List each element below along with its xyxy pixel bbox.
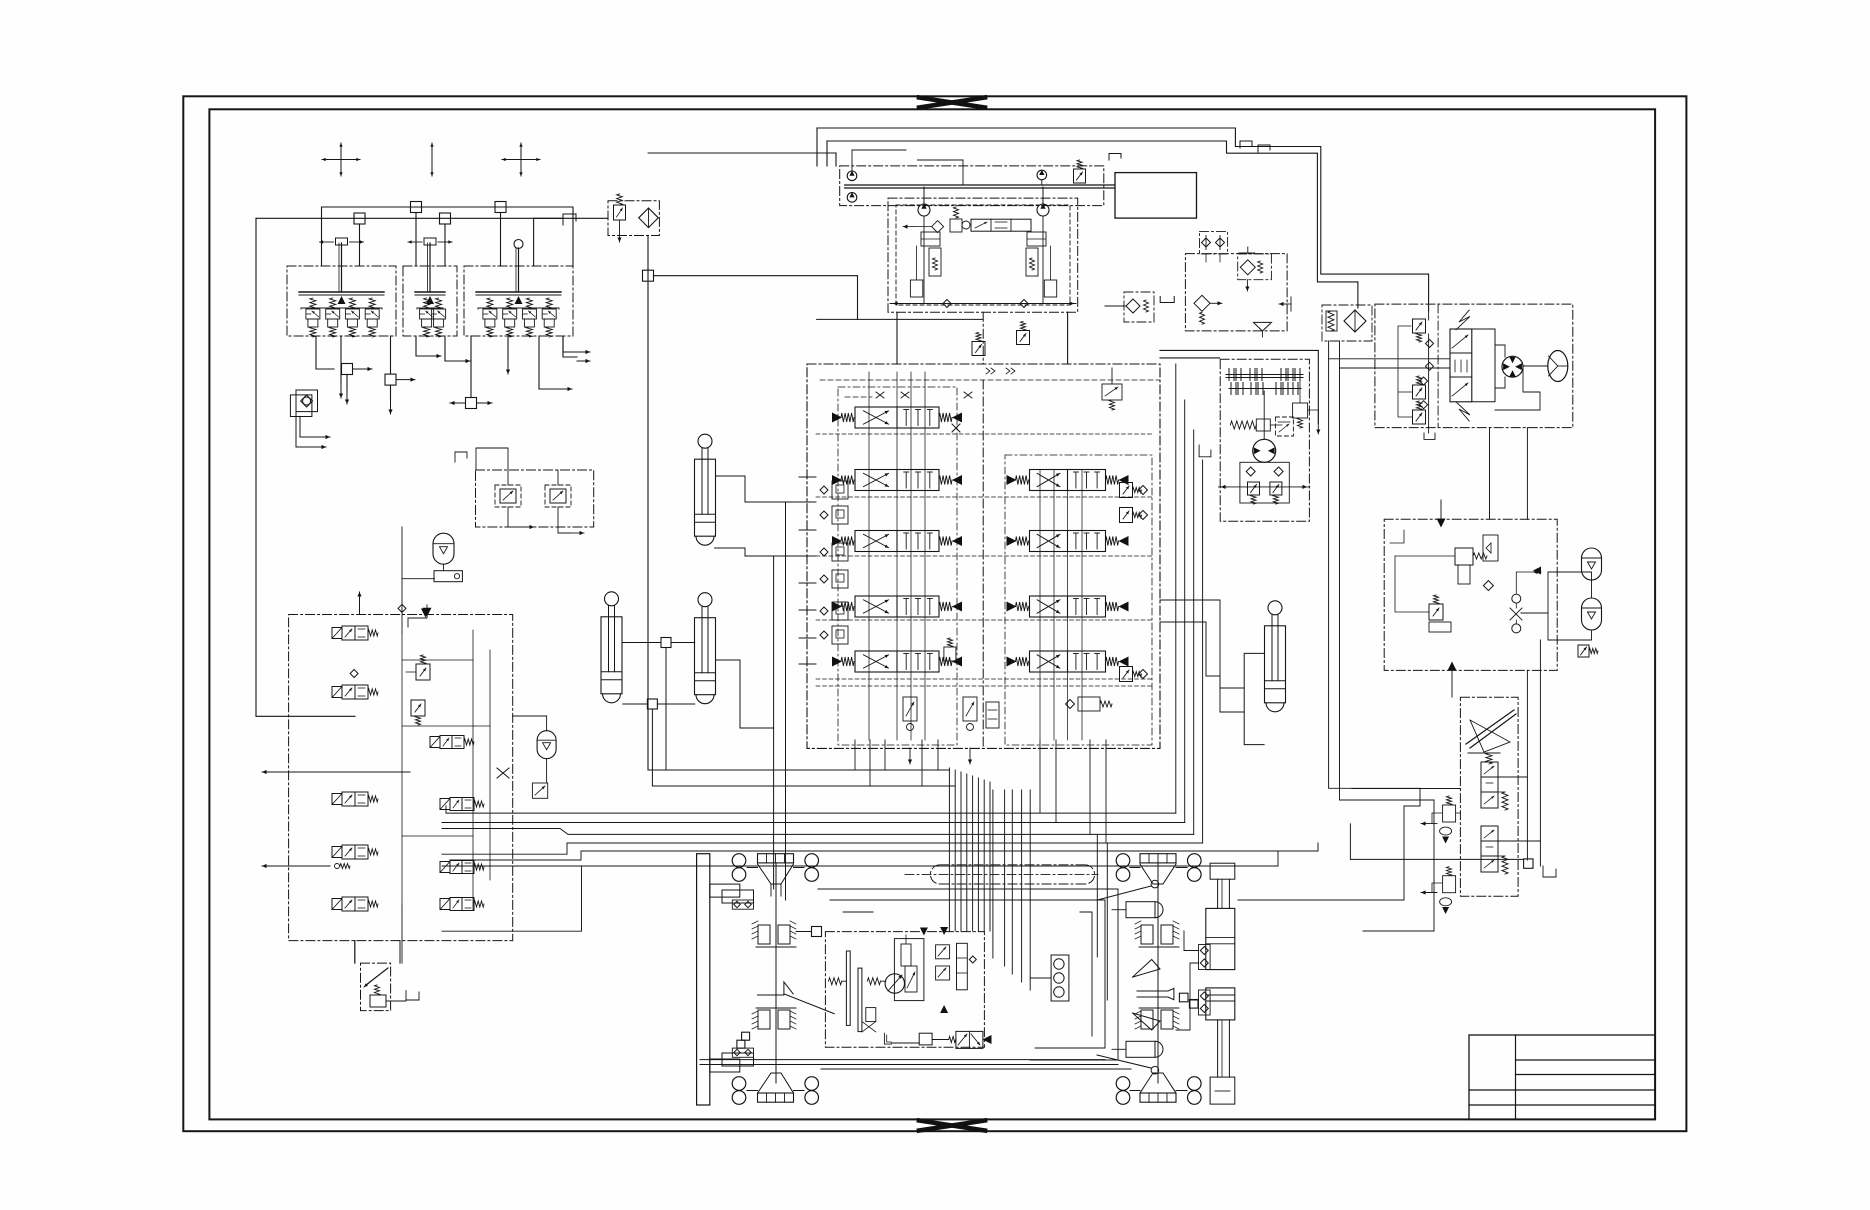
main control valve housing bbox=[807, 364, 1160, 748]
port square A3 bbox=[466, 398, 477, 409]
boom cylinder C bbox=[698, 593, 712, 607]
pump case drain bus bbox=[890, 303, 1076, 305]
boom cylinder B bbox=[605, 592, 619, 606]
port square trans bbox=[919, 1033, 932, 1045]
front axle shaft bbox=[775, 863, 777, 1083]
cylinder D bracket bbox=[1244, 653, 1264, 744]
pump control small valve bbox=[950, 219, 962, 232]
chassis rail left bbox=[697, 854, 710, 1105]
wire right lower loop bbox=[1238, 788, 1420, 900]
wire accumulators bbox=[1591, 580, 1593, 598]
clutch springs bbox=[829, 978, 842, 985]
pilot solenoid valve R3 bbox=[450, 861, 474, 874]
charge squares bbox=[1483, 535, 1498, 561]
transmission pump block bbox=[825, 932, 984, 1048]
brake valve section 2 bbox=[1481, 826, 1498, 872]
wire block1 out to port square bbox=[316, 336, 334, 369]
trans valve group bbox=[936, 945, 950, 959]
front wheels lower bbox=[732, 1077, 746, 1091]
port square T2 bbox=[440, 213, 451, 224]
wire charge to foot brake bbox=[1526, 670, 1528, 860]
solenoid valve SV3 bbox=[342, 792, 368, 806]
wire bundle along solenoid block bottom bbox=[442, 866, 582, 931]
solenoid block internal bus bbox=[472, 630, 474, 910]
outrigger solenoid valve block bbox=[289, 615, 513, 941]
towing 3-way valve bbox=[949, 1037, 956, 1043]
accumulator small bbox=[537, 731, 556, 759]
steering tank symbol bbox=[1424, 433, 1435, 439]
wire out left y772 bbox=[262, 771, 276, 773]
bottom bus lines bbox=[700, 1059, 1105, 1061]
wire staircase upper bbox=[817, 128, 1429, 311]
steering knuckle upper bbox=[1133, 960, 1161, 978]
pump regulator right bbox=[1027, 232, 1046, 246]
check diamond on solenoid bus bbox=[398, 604, 406, 612]
MCV bottom relief 2 bbox=[963, 697, 977, 721]
block relief valve 1 bbox=[416, 664, 430, 680]
wire stub to tank break symbol bbox=[534, 217, 563, 219]
MCV load check bbox=[944, 647, 956, 661]
wire filter to pilot header bbox=[534, 217, 608, 219]
MCV right bank spools bbox=[1030, 470, 1106, 491]
wire steering columns down bbox=[1329, 341, 1420, 788]
gear pump transfer box bbox=[840, 166, 1104, 206]
front axle beam bbox=[758, 854, 794, 863]
MCV bottom reducing valve bbox=[986, 702, 999, 728]
check valve block (pilot line) bbox=[290, 395, 312, 417]
stabilizer cylinder A bbox=[698, 434, 712, 448]
main pump P2 bbox=[1037, 204, 1049, 216]
steering unit (orbitrol) bbox=[1375, 304, 1573, 428]
shuttle block bbox=[1051, 955, 1069, 1001]
supply check and filter bbox=[1194, 295, 1210, 311]
axle port squares bbox=[742, 1032, 750, 1040]
stabilizer pilot check upper bbox=[1199, 945, 1211, 970]
steering feed filter bbox=[1322, 305, 1372, 341]
gear pump circle P3 bbox=[847, 171, 857, 181]
rear wheels lower bbox=[1116, 1077, 1130, 1091]
shift spring piston bbox=[1230, 421, 1256, 429]
wire left risers from solenoid block bbox=[401, 904, 403, 963]
front axle housing bbox=[758, 864, 794, 884]
direction cross symbol 3 bbox=[520, 143, 522, 176]
drive shaft loop bbox=[930, 865, 1094, 884]
brake shuttle 1 bbox=[1443, 805, 1456, 822]
displacement control box bbox=[894, 939, 924, 1001]
break symbol bbox=[563, 214, 576, 225]
bottom routing loop 3 bbox=[843, 911, 873, 913]
drawing inner border frame bbox=[209, 109, 1655, 1119]
charge filter box bbox=[1238, 254, 1272, 280]
trans L connector bbox=[884, 1033, 891, 1044]
hand pump body bbox=[370, 995, 386, 1007]
charge block inlet arrow bbox=[1437, 519, 1446, 528]
solenoid valve SV5 bbox=[342, 897, 368, 911]
solenoid valve SV1 bbox=[342, 626, 368, 640]
gear shaft upper bbox=[1226, 374, 1303, 376]
steering knuckle lower bbox=[1133, 1013, 1161, 1030]
pilot supply header wire bbox=[322, 207, 574, 266]
transmission pump circle bbox=[885, 974, 904, 993]
wire cylinder A ports bbox=[716, 476, 746, 502]
gearbox shift valve bbox=[1293, 403, 1308, 418]
charge relief bbox=[1429, 604, 1443, 620]
wire MCV spool drops to bundle bbox=[854, 740, 856, 770]
port square B2 bbox=[647, 699, 657, 709]
motor crossover line bbox=[1218, 486, 1309, 488]
direction arrow symbol 2 bbox=[431, 143, 433, 176]
wire hand pump risers bbox=[354, 941, 356, 964]
port square on filter line bbox=[643, 270, 654, 281]
travel motor bbox=[1253, 439, 1276, 462]
MCV right check valve assy bbox=[1078, 697, 1100, 711]
MCV pilot dashed lines bbox=[816, 433, 1152, 435]
bundle drop risers right bbox=[992, 790, 994, 958]
pilot solenoid valve R1 bbox=[440, 736, 464, 749]
ride control valve 2 bbox=[545, 485, 571, 507]
motor relief right bbox=[1270, 482, 1282, 495]
MCV left bank spools bbox=[855, 407, 939, 428]
pilot valve block 1 (loader control) bbox=[287, 266, 396, 336]
bottom routing loop 2 bbox=[830, 900, 1105, 1048]
wire solenoid block bottom drops bbox=[354, 941, 356, 964]
wire accumulator line bbox=[546, 716, 548, 731]
rear stabilizer cylinder lower bbox=[1206, 988, 1235, 1020]
MCV orifice symbols top bbox=[876, 392, 884, 398]
pressure compensators bbox=[832, 481, 848, 499]
wire bundle to foot brake bbox=[1350, 824, 1523, 860]
wire right side down to brake bbox=[1489, 428, 1491, 520]
hand pump lever bbox=[366, 968, 388, 985]
front steer cylinder lower bbox=[710, 1059, 740, 1072]
brake tank break bbox=[1543, 866, 1556, 877]
pilot solenoid valve R2 bbox=[450, 798, 474, 811]
pilot valve block 3 (backhoe control) bbox=[464, 266, 573, 336]
travel gearbox block bbox=[1220, 359, 1309, 521]
trans inlet arrows bbox=[920, 928, 928, 936]
front brake pack left bbox=[758, 925, 770, 944]
MCV top dashed pilot line bbox=[820, 379, 1160, 381]
steering valve body bbox=[1450, 329, 1472, 402]
MCV internal port lines bbox=[868, 372, 870, 740]
wire filter down supply bbox=[648, 236, 906, 771]
wire pump suction bbox=[918, 160, 964, 185]
pressure switch bbox=[434, 571, 462, 582]
pump regulator left bbox=[921, 232, 940, 246]
cut mark top bbox=[919, 98, 985, 108]
bundle risers to MCV bbox=[948, 768, 950, 931]
rear axle lever plate bbox=[1137, 988, 1174, 999]
tank break at ride block bbox=[455, 452, 467, 462]
wire bundle left vertical bbox=[773, 556, 775, 889]
main pump assembly box bbox=[888, 198, 1078, 312]
steering wheel bbox=[1548, 351, 1568, 382]
charge block outlet arrow bbox=[1448, 662, 1457, 671]
gear shaft lower bbox=[1229, 388, 1301, 390]
drive shaft bbox=[845, 184, 1115, 186]
swing cylinder D bbox=[1268, 601, 1282, 615]
drawing outer border frame bbox=[183, 96, 1686, 1131]
solenoid valve SV2 bbox=[342, 685, 368, 699]
foot brake valve block bbox=[1460, 697, 1518, 896]
rear axle housing lower bbox=[1140, 1073, 1176, 1093]
solenoid valve SV4 bbox=[342, 845, 368, 859]
steer cylinder upper right bbox=[1126, 902, 1155, 918]
LS proportional valve bbox=[971, 219, 1031, 231]
tank break symbols near engine bbox=[1109, 154, 1121, 161]
port square A2 bbox=[385, 374, 396, 385]
LS filter diamond bbox=[932, 221, 944, 233]
pilot return header wire bbox=[256, 218, 534, 266]
clutch plates bbox=[846, 951, 850, 1025]
wire MCV right verticals bbox=[1175, 364, 1177, 813]
wire staircase lower bbox=[827, 141, 1358, 308]
brake pedal bbox=[1466, 710, 1514, 744]
dual check valves bbox=[1200, 231, 1228, 254]
charge valve bbox=[1455, 548, 1473, 565]
port square T1 bbox=[354, 213, 365, 224]
main pump P1 bbox=[918, 204, 930, 216]
wire block3 out right bbox=[539, 336, 556, 389]
relief valve fan circuit bbox=[1074, 169, 1086, 183]
gearbox tank symbol bbox=[1199, 445, 1211, 457]
engine bbox=[1115, 173, 1197, 219]
wire MCV right to cylinder D bbox=[1160, 600, 1220, 712]
rear brake pack bbox=[1141, 925, 1153, 944]
bottom routing loop 1 bbox=[818, 889, 1118, 1060]
arrow port right bbox=[1279, 303, 1291, 305]
wire out left y866 bbox=[262, 865, 276, 867]
steering relief valves bbox=[1413, 319, 1426, 333]
brake valve section 1 bbox=[1481, 762, 1498, 808]
MCV to right wires bbox=[1160, 350, 1318, 423]
brake port square bbox=[1524, 859, 1533, 868]
brake accumulator 2 bbox=[1582, 598, 1602, 630]
MCV left edge port ticks bbox=[799, 476, 816, 478]
rear brake pack lower bbox=[1141, 1010, 1153, 1029]
hand pump tank break bbox=[406, 991, 419, 1000]
wire ride block feeds bbox=[476, 448, 508, 485]
trans relief with drain bbox=[866, 1008, 876, 1022]
gear pump circle P4 bbox=[847, 193, 857, 203]
wire filter square to pump inlet bbox=[654, 276, 858, 320]
pilot valve block 2 (aux control) bbox=[403, 266, 457, 336]
rear axle housing bbox=[1140, 864, 1176, 884]
orifice on left wire bbox=[335, 864, 340, 869]
port square B1 bbox=[661, 638, 671, 648]
wire block1 drain bbox=[340, 336, 342, 384]
rear axle port squares bbox=[1179, 993, 1188, 1002]
return funnel bbox=[1253, 322, 1271, 331]
filled arrow pilot supply bbox=[423, 608, 432, 617]
steer cylinder lower right bbox=[1126, 1041, 1155, 1057]
port square P2 bbox=[495, 202, 506, 213]
wire brake outputs bbox=[1498, 776, 1527, 778]
MCV inner bank boxes bbox=[838, 387, 957, 745]
wire block arrow up bbox=[359, 592, 361, 615]
accumulator relief bbox=[1578, 645, 1589, 657]
wire block3 far right bbox=[563, 336, 577, 357]
ride control valve block bbox=[476, 470, 594, 527]
stabilizer pilot check lower bbox=[1199, 990, 1211, 1015]
hand pump block bbox=[361, 963, 391, 1011]
front brake pack lower bbox=[758, 1010, 770, 1029]
MCV orifice chevrons bbox=[986, 368, 990, 374]
wire pilot left drop bbox=[256, 218, 355, 716]
acc pilot valve bbox=[532, 783, 547, 798]
wire cylinders to MCV bbox=[666, 648, 906, 771]
rear axle beam bbox=[1140, 854, 1176, 863]
charge check diamond bbox=[1483, 581, 1493, 591]
accumulator main bbox=[433, 533, 454, 564]
pilot supply block bbox=[1185, 254, 1287, 331]
front wheels bbox=[732, 854, 746, 868]
pump circle fan bbox=[1037, 170, 1047, 180]
MCV bottom relief 1 bbox=[903, 697, 917, 721]
brake shuttle 2 bbox=[1443, 876, 1456, 893]
title block bbox=[1469, 1035, 1655, 1119]
pilot filter bbox=[608, 201, 659, 236]
pilot relief valve bbox=[614, 205, 626, 220]
ride control valve 1 bbox=[495, 485, 521, 507]
wire accumulator drop bbox=[402, 578, 435, 580]
cut mark bottom bbox=[919, 1121, 985, 1131]
wire pump outlets to MCV bbox=[896, 312, 898, 364]
main hose bundle horizontal bbox=[446, 806, 1176, 813]
block relief valve 2 bbox=[411, 700, 425, 716]
axle lever linkage bbox=[758, 982, 794, 995]
wire block3 drain bbox=[507, 336, 509, 360]
bundle risers rear axle bbox=[1096, 834, 1098, 957]
wire stabilizer feeds bbox=[1184, 931, 1199, 951]
steering return loop bbox=[1495, 366, 1540, 410]
brake charge valve block bbox=[1384, 519, 1557, 670]
motor relief left bbox=[1248, 482, 1260, 495]
rear stabilizer cylinder upper bbox=[1210, 863, 1235, 879]
travel speed solenoid valve bbox=[1102, 384, 1122, 400]
motor housing bbox=[1240, 462, 1289, 503]
port square P1 bbox=[411, 202, 422, 213]
wire charge internals bbox=[1395, 555, 1455, 557]
steering springs bbox=[1456, 310, 1470, 330]
MCV inlet relief bbox=[972, 342, 985, 356]
gearbox pilot valve bbox=[1275, 417, 1293, 436]
MCV pilot relief bbox=[1017, 331, 1030, 345]
front axle housing lower bbox=[758, 1073, 794, 1093]
steering metering motor bbox=[1502, 356, 1523, 377]
charge check balls bbox=[1512, 594, 1521, 603]
brake accumulator 1 bbox=[1582, 548, 1602, 580]
wire MCV bottom to bundle bbox=[906, 769, 949, 771]
pilot solenoid valve R4 bbox=[450, 898, 474, 911]
wire pump risers bbox=[816, 128, 818, 166]
wire steering feed lines bbox=[1329, 358, 1450, 360]
front steer cylinder upper bbox=[710, 884, 740, 897]
wire to steering relief bbox=[1428, 311, 1430, 320]
MCV right relief valves bbox=[1120, 483, 1133, 498]
inlet filter assembly bbox=[1124, 292, 1154, 322]
orifice X on acc line bbox=[497, 768, 509, 778]
rear wheels bbox=[1116, 854, 1130, 868]
port square A1 bbox=[342, 364, 353, 375]
direction cross symbol 1 bbox=[340, 143, 342, 176]
MCV cross-line orifices bbox=[952, 424, 960, 432]
wire block2 outputs bbox=[416, 336, 426, 356]
brake feed square bbox=[812, 927, 822, 937]
